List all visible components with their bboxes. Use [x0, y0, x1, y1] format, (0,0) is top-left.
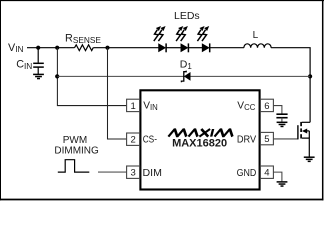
svg-text:VIN: VIN	[143, 101, 158, 113]
svg-text:CIN: CIN	[16, 59, 32, 72]
wire LED3 to L	[210, 47, 244, 49]
PWM pulse waveform	[58, 160, 90, 172]
diode D1 schottky	[181, 71, 190, 83]
wire pin 4 to ground	[273, 172, 282, 181]
svg-text:L: L	[253, 30, 259, 41]
IC U1 MAX16820 box	[140, 90, 259, 189]
svg-text:LEDs: LEDs	[174, 10, 200, 22]
svg-text:DIM: DIM	[143, 168, 162, 179]
svg-text:5: 5	[264, 134, 269, 145]
svg-text:VIN: VIN	[8, 42, 24, 54]
wire CIN bottom stub	[37, 67, 39, 74]
wire D1 line left segment	[57, 75, 183, 77]
wire CS node down to pin 2	[108, 48, 127, 139]
pin 2 box	[127, 133, 140, 146]
transistor Q1 nMOSFET	[298, 122, 310, 157]
Maxim logo	[168, 129, 234, 137]
svg-text:DRV: DRV	[237, 135, 256, 146]
pin 5 box	[260, 132, 273, 145]
ground VCC cap	[277, 122, 288, 126]
wire LED2 to LED3	[188, 47, 202, 49]
svg-text:1: 1	[130, 101, 135, 112]
node junction dot switch node / D1	[308, 74, 312, 78]
wire cap bottom stub	[281, 118, 283, 122]
wire L to switch node corner	[271, 48, 310, 123]
svg-text:VCC: VCC	[237, 101, 255, 113]
svg-text:2: 2	[130, 135, 135, 146]
wire VIN node down to pin 1	[57, 48, 126, 106]
svg-text:DIMMING: DIMMING	[54, 145, 99, 156]
capacitor VCC bypass plates	[276, 114, 287, 118]
svg-text:RSENSE: RSENSE	[65, 33, 101, 45]
ground MOSFET source	[304, 157, 315, 161]
ground CIN	[33, 74, 44, 78]
node junction dot D1 return	[55, 74, 59, 78]
node junction dot CS branch	[105, 46, 109, 50]
wire D1 line right segment	[190, 75, 310, 77]
capacitor CIN plates	[33, 63, 44, 67]
pin 6 box	[260, 99, 273, 112]
svg-text:6: 6	[264, 101, 269, 112]
svg-text:GND: GND	[237, 168, 257, 179]
LED D-LED3	[197, 26, 209, 52]
resistor RSENSE zigzag	[75, 45, 94, 51]
wire RSENSE to LED1	[93, 47, 158, 49]
svg-text:3: 3	[130, 168, 135, 179]
wire VIN to RSENSE	[27, 47, 75, 49]
wire CIN top stub	[37, 48, 39, 63]
pin 4 box	[260, 166, 273, 179]
wire pin 6 to VCC cap	[273, 106, 282, 114]
svg-text:MAX16820: MAX16820	[172, 138, 227, 150]
wire LED1 to LED2	[166, 47, 181, 49]
pin 3 box	[127, 166, 140, 179]
node junction dot CIN tap	[36, 46, 40, 50]
inductor L humps	[244, 44, 271, 48]
wire to pin 3	[98, 171, 127, 173]
wire pin 5 to gate	[273, 138, 298, 140]
node junction dot VIN/D1 branch	[55, 46, 59, 50]
svg-text:4: 4	[264, 168, 269, 179]
svg-text:CS-: CS-	[143, 135, 157, 146]
LED D-LED1	[154, 26, 166, 52]
LED D-LED2	[176, 26, 188, 52]
pin 1 box	[127, 99, 140, 112]
ground GND pin	[277, 182, 288, 186]
